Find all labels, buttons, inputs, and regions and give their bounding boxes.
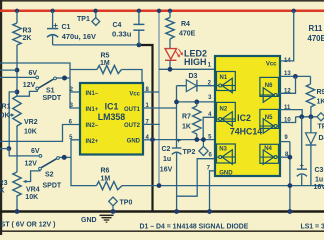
svg-text:SPDT: SPDT xyxy=(43,95,62,102)
svg-text:1K: 1K xyxy=(317,99,324,106)
svg-text:IN2–: IN2– xyxy=(86,123,99,129)
svg-text:12V: 12V xyxy=(25,161,38,168)
svg-text:SPDT: SPDT xyxy=(43,182,62,189)
svg-text:16V: 16V xyxy=(314,184,324,191)
svg-text:N2: N2 xyxy=(220,106,228,112)
svg-text:1M: 1M xyxy=(101,175,111,182)
inverter N6 xyxy=(260,77,279,102)
wire: C1/C4 bottom node to black line xyxy=(53,44,141,46)
potentiometer VR2 10K xyxy=(13,96,21,128)
wire: IC2 pin5 line from black sense line xyxy=(153,139,216,141)
test point TP diamond (cut at edge) xyxy=(317,113,324,121)
wire: IC1 pin7 OUT2 to grey line xyxy=(143,123,160,125)
svg-text:IN1–: IN1– xyxy=(86,91,99,97)
junction dots on red rail xyxy=(15,9,19,13)
capacitor C1 470u 16V xyxy=(52,11,54,28)
wire stub left at y148.6 xyxy=(0,148,9,150)
inverter N2 xyxy=(217,102,236,126)
border frame left edge xyxy=(0,0,2,235)
svg-text:TP0: TP0 xyxy=(120,199,133,206)
node: IC2 pin13 junction xyxy=(293,74,298,79)
svg-text:+: + xyxy=(177,136,182,145)
hex inverter IC2 74HC14 xyxy=(215,56,280,176)
node: ground line junction right xyxy=(288,183,293,188)
wire: IC1 pin4 GND to black line xyxy=(143,139,153,141)
svg-text:VR2: VR2 xyxy=(24,119,38,126)
node: C4 bottom junction xyxy=(137,43,142,48)
wire: S2 pole up to IC1 pin5 and down to R6 xyxy=(71,140,97,186)
resistor R9 1K xyxy=(310,76,312,84)
svg-text:N1: N1 xyxy=(220,75,228,81)
wire: node line to TP diamond xyxy=(296,116,318,118)
svg-text:GND: GND xyxy=(219,171,233,177)
wire: IC2 pin12 jog up to pin13 xyxy=(280,76,296,93)
potentiometer VR4 10K xyxy=(13,172,21,197)
node: C3 branch junction xyxy=(299,114,304,119)
node: C2 ground junction xyxy=(174,209,179,214)
wire: IC2 pin6 to C2 ground xyxy=(177,159,215,197)
svg-text:LS1 = 3: LS1 = 3 xyxy=(301,224,324,231)
node: D4 branch junction xyxy=(309,114,314,119)
svg-text:LM358: LM358 xyxy=(98,112,125,122)
svg-text:C3: C3 xyxy=(315,167,324,174)
wire: IC1 pin1 OUT1 to D3 node xyxy=(143,107,177,109)
node: IC1 pin4 on battery sense line xyxy=(150,137,155,142)
svg-text:470E: 470E xyxy=(308,34,324,43)
svg-text:D4: D4 xyxy=(319,135,324,142)
resistor R3 2K xyxy=(16,11,18,23)
switch S1 SPDT xyxy=(36,87,39,90)
node: TP0 ground junction xyxy=(111,209,116,214)
svg-text:IC2: IC2 xyxy=(237,113,251,123)
wire: VR4 to ground bus xyxy=(16,197,18,212)
svg-text:R11: R11 xyxy=(309,24,324,33)
inverter N5 xyxy=(260,109,279,133)
wire: IC2 pin1 line xyxy=(159,68,223,70)
wire: +V red power rail xyxy=(0,10,324,13)
node: VR4 to ground junction xyxy=(15,209,20,214)
wire: black battery sense line vertical xyxy=(140,45,153,212)
node: LED2 cathode junction xyxy=(168,67,173,72)
svg-text:Vcc: Vcc xyxy=(129,92,140,98)
node: R6 right junction xyxy=(157,183,162,188)
wire: R3 down to VR2 xyxy=(16,45,18,96)
svg-text:R3: R3 xyxy=(23,28,32,35)
wire: IC2 pin14 Vcc from rail xyxy=(280,11,294,61)
svg-text:Vcc: Vcc xyxy=(266,62,277,68)
svg-text:1M: 1M xyxy=(100,60,110,67)
op-amp IC1 LM358 xyxy=(80,83,143,155)
svg-text:OUT2: OUT2 xyxy=(124,123,141,129)
svg-text:C1: C1 xyxy=(62,24,71,31)
svg-text:D3: D3 xyxy=(189,73,198,80)
inverter N1 xyxy=(217,72,236,93)
node dot xyxy=(15,90,20,95)
svg-text:1u: 1u xyxy=(163,156,171,163)
node: IC2 pin8 junction xyxy=(288,155,293,160)
svg-text:GND: GND xyxy=(81,217,97,224)
inverter N3 xyxy=(217,144,236,164)
wire: IC2 pin9 and pin8 joined xyxy=(280,141,290,143)
node: D3 anode junction xyxy=(174,100,179,105)
svg-text:R4: R4 xyxy=(181,21,190,28)
svg-text:470E: 470E xyxy=(179,31,196,38)
wire: IC1 pin6 line to left xyxy=(0,125,80,142)
LED2 HIGH xyxy=(169,39,171,49)
svg-text:IN2+: IN2+ xyxy=(86,139,99,145)
svg-text:OUT1: OUT1 xyxy=(124,107,141,113)
wire: IC2 pin3 line xyxy=(177,101,216,103)
diode D4 xyxy=(310,117,312,133)
svg-text:2K: 2K xyxy=(23,35,32,42)
capacitor C4 0.33u xyxy=(138,11,140,25)
svg-text:TEST ( 6V OR 12V ): TEST ( 6V OR 12V ) xyxy=(0,222,56,229)
wire: ground black bus (battery negative) xyxy=(0,210,324,213)
svg-text:S1: S1 xyxy=(46,87,55,94)
svg-text:R5: R5 xyxy=(101,52,110,59)
wire: D3 anode vertical / C2 branch xyxy=(176,86,178,148)
svg-text:HIGH: HIGH xyxy=(184,57,207,67)
svg-text:VR4: VR4 xyxy=(26,186,40,193)
border frame bottom rule xyxy=(0,230,324,232)
wire: GND line y185.6 xyxy=(122,185,324,187)
wire: IC2 pin11 jog down to node xyxy=(280,110,302,117)
svg-text:10K: 10K xyxy=(25,194,38,201)
svg-text:6V: 6V xyxy=(31,148,40,155)
node: R7 bottom junction xyxy=(194,137,199,142)
svg-text:6V: 6V xyxy=(29,70,38,77)
inverter N4 xyxy=(260,144,279,164)
svg-text:TP1: TP1 xyxy=(77,16,90,23)
node: S1 pole junction xyxy=(62,76,67,81)
svg-text:D1 – D4 = 1N4148 SIGNAL DIODE: D1 – D4 = 1N4148 SIGNAL DIODE xyxy=(140,223,249,230)
svg-text:S2: S2 xyxy=(45,172,54,179)
wire: IC2 pin4 jog joining pin5 line xyxy=(203,117,215,139)
node: ground bus junction right xyxy=(288,209,293,214)
svg-text:+: + xyxy=(53,21,58,30)
svg-text:16V: 16V xyxy=(160,166,173,173)
wire: IC2 pin10 jog up to node xyxy=(280,117,296,123)
svg-text:12V: 12V xyxy=(23,82,36,89)
svg-text:R7: R7 xyxy=(182,114,191,121)
wire: 6V feed to S1 contact xyxy=(0,76,36,78)
svg-text:VR3: VR3 xyxy=(0,180,8,187)
node: TP2 stub junction xyxy=(201,137,206,142)
wire: VR2 wiper loop xyxy=(9,92,17,149)
test point TP0 xyxy=(109,197,118,206)
svg-text:TP3: TP3 xyxy=(318,123,324,130)
wire: 6V feed to S2 contact xyxy=(9,149,39,156)
node: S2 pole junction xyxy=(62,155,67,160)
svg-text:74HC14: 74HC14 xyxy=(230,127,262,137)
resistor R4 470E xyxy=(169,11,171,18)
svg-text:C2: C2 xyxy=(162,146,171,153)
node dot xyxy=(6,146,11,151)
switch S2 SPDT xyxy=(39,167,42,170)
wire: LED2 cathode down to IC2 pin1 line xyxy=(169,60,171,69)
svg-text:10K: 10K xyxy=(0,188,5,195)
wire: long line to S1 pole / IC1 pin3 xyxy=(0,63,80,108)
wire: VR2 down to VR4 xyxy=(16,128,18,172)
svg-text:470u, 16V: 470u, 16V xyxy=(62,32,96,41)
svg-text:VR1: VR1 xyxy=(0,104,11,111)
wire stub left at y70 xyxy=(0,69,17,71)
svg-text:R6: R6 xyxy=(101,168,110,175)
svg-text:1K: 1K xyxy=(182,123,191,130)
capacitor C3 1u 16V xyxy=(301,117,303,169)
svg-text:N3: N3 xyxy=(219,147,227,153)
svg-text:TP2: TP2 xyxy=(183,149,196,156)
svg-text:N6: N6 xyxy=(265,83,273,89)
svg-text:10K: 10K xyxy=(0,113,10,120)
svg-text:C4: C4 xyxy=(113,22,122,29)
wire: IC1 pin8 Vcc stub xyxy=(143,91,159,93)
svg-text:10K: 10K xyxy=(24,129,37,136)
svg-text:0.33u: 0.33u xyxy=(112,29,132,38)
wire: IC2 pin7 GND to bottom rail xyxy=(210,171,216,212)
svg-text:IC1: IC1 xyxy=(105,101,119,111)
node dot xyxy=(15,68,20,73)
border frame top edge xyxy=(0,0,324,2)
svg-text:1u: 1u xyxy=(315,176,323,183)
svg-text:GND: GND xyxy=(127,139,141,145)
node: IC2 pin7 ground junction xyxy=(207,209,212,214)
wire: IC2 pin13 line xyxy=(280,75,311,77)
node: R7 top junction xyxy=(194,100,199,105)
svg-text:R9: R9 xyxy=(317,89,324,96)
wire: grey vertical Vcc/feedback line xyxy=(158,11,160,186)
wire: IC1 pin2 stub xyxy=(70,91,80,93)
